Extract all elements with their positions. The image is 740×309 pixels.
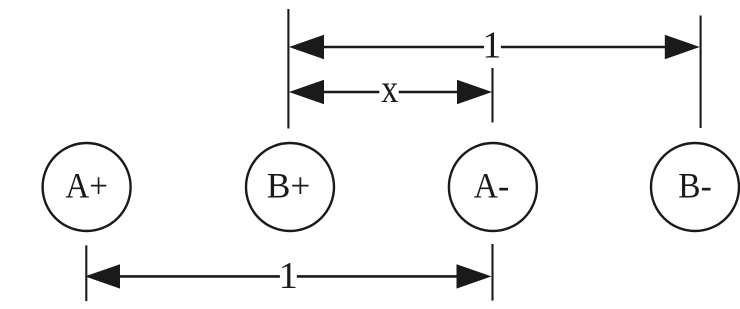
top dimension right arrowhead <box>665 35 700 59</box>
bottom dimension line segment left <box>117 275 280 278</box>
top dimension line segment left <box>321 46 484 49</box>
mid dimension right arrowhead <box>457 80 492 104</box>
node B- (circle) <box>651 143 739 231</box>
svg-text:B+: B+ <box>267 166 311 206</box>
extension line above B+ <box>287 9 289 129</box>
mid dimension line segment left <box>322 91 379 94</box>
bottom dimension right arrowhead <box>457 264 492 288</box>
svg-text:B-: B- <box>678 166 711 206</box>
extension tick below A- <box>491 244 493 301</box>
svg-text:1: 1 <box>482 25 501 67</box>
top dimension left arrowhead <box>289 35 324 59</box>
bottom dimension line segment right <box>297 275 460 278</box>
mid dimension left arrowhead <box>289 80 324 104</box>
mid dimension line segment right <box>399 91 460 94</box>
bottom dimension left arrowhead <box>85 264 120 288</box>
svg-text:x: x <box>381 66 398 111</box>
svg-text:A+: A+ <box>65 166 108 206</box>
node A+ (circle) <box>43 143 131 231</box>
extension tick below A+ <box>85 245 87 301</box>
svg-text:A-: A- <box>474 166 509 206</box>
top dimension line segment right <box>501 46 668 49</box>
svg-text:1: 1 <box>279 255 298 297</box>
extension tick above A- <box>491 68 493 123</box>
node B+ (circle) <box>246 143 334 231</box>
node A- (circle) <box>449 143 537 231</box>
extension line above B- <box>700 16 702 129</box>
